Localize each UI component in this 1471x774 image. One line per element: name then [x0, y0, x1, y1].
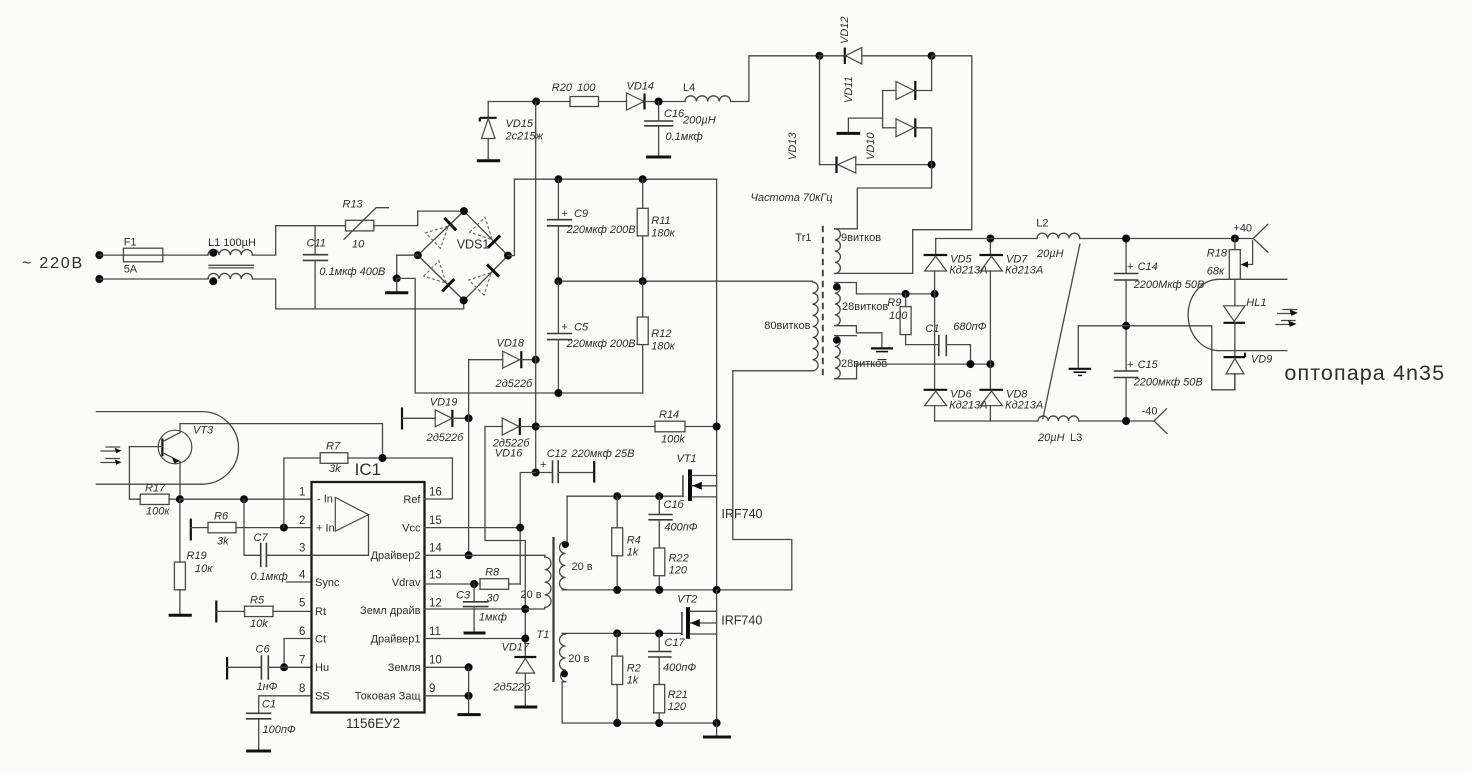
- op-amp U1 IC1 box: [312, 460, 425, 731]
- wire L1 upper out jog up: [252, 226, 345, 255]
- svg-text:C1: C1: [262, 699, 276, 711]
- transistor VT3: [129, 425, 214, 464]
- node R11 R12 junction: [639, 277, 647, 285]
- svg-text:1156ЕУ2: 1156ЕУ2: [346, 716, 400, 731]
- resistor R17: [140, 483, 180, 518]
- capacitor C17 gate VT2: [649, 633, 697, 684]
- node upper winding VD5 junction: [931, 290, 939, 298]
- svg-text:0.1мкф: 0.1мкф: [666, 131, 703, 143]
- transformer Tr1 lower secondary 28 turns: [833, 336, 887, 379]
- node minus 40V terminal: [1142, 406, 1167, 434]
- svg-text:VT2: VT2: [677, 594, 697, 606]
- svg-text:R6: R6: [214, 511, 229, 523]
- svg-text:L2: L2: [1036, 218, 1048, 230]
- svg-text:4: 4: [299, 570, 306, 582]
- node bridge left vertex: [414, 251, 422, 259]
- wire half-bridge midpoint rail: [562, 589, 792, 591]
- ground center tap: [871, 333, 893, 352]
- wire clamp left rail: [819, 56, 821, 165]
- svg-text:VT1: VT1: [677, 453, 697, 465]
- svg-text:2с215ж: 2с215ж: [505, 131, 544, 143]
- svg-text:VD13: VD13: [787, 132, 799, 160]
- transformer T1 lower gate winding: [560, 633, 590, 723]
- node VD19 junction: [465, 414, 473, 422]
- wire VD14 to L4: [645, 101, 686, 103]
- node clamp right top: [928, 52, 936, 60]
- zener VD9: [1224, 353, 1273, 390]
- svg-text:R18: R18: [1207, 248, 1228, 260]
- svg-text:20µН: 20µН: [1037, 432, 1065, 444]
- svg-text:VD17: VD17: [502, 642, 530, 654]
- wire pin4 Sync stub: [287, 581, 312, 583]
- transistor VT2: [677, 594, 762, 639]
- node C9 C5 junction: [554, 277, 562, 285]
- node pin6 pin7 junction: [280, 663, 288, 671]
- wire L3 to minus output: [1079, 420, 1154, 422]
- svg-text:-40: -40: [1142, 406, 1158, 418]
- svg-text:68к: 68к: [1207, 266, 1225, 278]
- resistor R4: [612, 496, 641, 590]
- diode VD7: [979, 239, 1043, 365]
- diode VD13: [787, 132, 932, 173]
- node VD7 top rail junction: [986, 235, 994, 243]
- svg-text:10: 10: [429, 655, 442, 667]
- wire lower input to L1: [99, 278, 208, 280]
- fuse F1: [123, 237, 162, 276]
- diode VD18: [469, 338, 536, 391]
- svg-text:100: 100: [577, 82, 596, 94]
- diode VD6: [924, 294, 988, 421]
- svg-text:Vcc: Vcc: [402, 523, 421, 535]
- node VD7 VD8 rail junction: [986, 360, 994, 368]
- node C16 top: [655, 98, 663, 106]
- resistor R9: [887, 294, 938, 345]
- svg-text:0.1мкф 400В: 0.1мкф 400В: [319, 266, 385, 278]
- svg-text:R5: R5: [250, 595, 265, 607]
- svg-text:100k: 100k: [661, 434, 685, 446]
- node R20 left junction: [532, 98, 540, 106]
- svg-text:VD19: VD19: [430, 397, 458, 409]
- svg-text:оптопара 4n35: оптопара 4n35: [1284, 361, 1445, 385]
- svg-text:30: 30: [487, 593, 500, 605]
- node C14 C15 junction: [1122, 322, 1130, 330]
- node pin12 T1 winding junction: [521, 605, 529, 613]
- transformer Tr1 winding 9 turns: [835, 229, 881, 274]
- bridge rectifier VDS1: [418, 211, 508, 300]
- wire L1 lower out jog down: [252, 279, 275, 309]
- svg-text:1k: 1k: [627, 547, 639, 559]
- node bridge top vertex: [460, 207, 468, 215]
- svg-text:R4: R4: [627, 535, 641, 547]
- diode VD14: [627, 81, 655, 111]
- node VD18 cathode junction: [532, 356, 540, 364]
- ground VD15: [477, 159, 500, 162]
- wire HV plus rail: [514, 178, 716, 180]
- svg-text:9: 9: [429, 683, 435, 695]
- op-amp error amplifier triangle: [335, 498, 368, 532]
- svg-text:100: 100: [889, 310, 908, 322]
- svg-text:1k: 1k: [627, 675, 639, 687]
- capacitor C16: [645, 102, 703, 157]
- svg-text:12: 12: [429, 598, 442, 610]
- wire pin15 Vcc line: [425, 527, 521, 529]
- diode VD19: [402, 397, 469, 445]
- svg-text:2д522б: 2д522б: [493, 682, 532, 694]
- node pin13 R8 C3 junction: [470, 580, 478, 588]
- led HL1: [1224, 279, 1267, 357]
- inductor L1 common-mode choke: [208, 237, 256, 285]
- capacitor C12: [536, 448, 635, 483]
- svg-text:C11: C11: [307, 238, 326, 250]
- svg-text:220мкф 200В: 220мкф 200В: [566, 338, 636, 350]
- node R6 pin2 R7 junction: [280, 524, 288, 532]
- svg-text:1мкф: 1мкф: [479, 612, 507, 624]
- node pin11 VD17 junction: [521, 635, 529, 643]
- capacitor C3: [456, 584, 507, 633]
- svg-text:400пФ: 400пФ: [663, 662, 696, 674]
- ground bridge minus: [385, 278, 408, 292]
- svg-text:Rt: Rt: [315, 606, 326, 618]
- wire VT1 source to midpoint: [716, 476, 718, 590]
- resistor R22: [654, 548, 689, 590]
- svg-text:SS: SS: [315, 691, 330, 703]
- node pin10 junction: [465, 663, 473, 671]
- svg-text:R22: R22: [669, 553, 689, 565]
- svg-text:0.1мкф: 0.1мкф: [251, 571, 288, 583]
- wire L4 to clamp top rail: [731, 56, 820, 102]
- svg-text:Драйвер1: Драйвер1: [371, 634, 421, 646]
- node Vcc junction: [516, 524, 524, 532]
- wire pin9 line: [425, 695, 469, 697]
- svg-text:28витков: 28витков: [842, 301, 888, 313]
- svg-text:IC1: IC1: [355, 460, 381, 479]
- svg-text:11: 11: [429, 626, 441, 638]
- node input terminal upper: [95, 251, 103, 259]
- inductor L2: [1036, 218, 1080, 261]
- svg-text:3: 3: [299, 543, 305, 555]
- wire bridge right vertex up to HV plus rail: [508, 179, 514, 255]
- resistor R21: [654, 685, 688, 724]
- capacitor C7: [244, 499, 312, 583]
- svg-text:C14: C14: [1138, 261, 1158, 273]
- resistor R11: [637, 179, 675, 281]
- node C9 top: [554, 175, 562, 183]
- svg-text:Кд213А: Кд213А: [1005, 265, 1043, 277]
- svg-text:16: 16: [429, 487, 442, 499]
- diode VD12: [820, 16, 932, 64]
- svg-text:80витков: 80витков: [764, 320, 810, 332]
- resistor R6: [191, 511, 312, 548]
- svg-text:L1 100µH: L1 100µH: [208, 237, 256, 249]
- diode VD11: [843, 56, 932, 128]
- svg-text:F1: F1: [124, 237, 137, 249]
- wire HL1 VD9 junction stub: [1218, 350, 1287, 352]
- svg-text:2200Мкф 50В: 2200Мкф 50В: [1133, 279, 1205, 291]
- svg-text:Tr1: Tr1: [795, 232, 811, 244]
- wire L2 to plus output: [1080, 238, 1254, 240]
- wire clamp top right corner down: [835, 56, 972, 274]
- svg-text:R20: R20: [552, 82, 573, 94]
- svg-text:C12: C12: [547, 448, 567, 460]
- svg-text:C1: C1: [925, 323, 939, 335]
- node IC1 left pin numbers: [299, 487, 306, 696]
- node plus 40V terminal: [1231, 223, 1268, 253]
- ground IC pins 9 10: [458, 667, 481, 714]
- diode VDS1 arm bottom-left: [424, 261, 455, 292]
- wire output plus rail: [936, 238, 1037, 240]
- diode VD5: [924, 239, 988, 294]
- node IC1 left pin names: [315, 577, 340, 703]
- wire pin14 driver2 line: [425, 554, 545, 556]
- svg-text:~ 220В: ~ 220В: [22, 255, 84, 272]
- wire L2 L3 coupling line: [1043, 244, 1080, 418]
- resistor R14: [536, 409, 717, 446]
- node C17 top: [655, 629, 663, 637]
- node R4 top: [613, 492, 621, 500]
- node C15 bottom: [1122, 417, 1130, 425]
- node VT1 source midpoint junction: [713, 586, 721, 594]
- svg-text:C16: C16: [664, 108, 685, 120]
- wire HV plus rail down to VT1 drain: [716, 179, 718, 475]
- svg-text:1нФ: 1нФ: [257, 681, 278, 693]
- svg-text:R7: R7: [326, 441, 341, 453]
- svg-text:VD10: VD10: [865, 132, 877, 160]
- svg-text:L3: L3: [1070, 432, 1082, 444]
- svg-text:20µН: 20µН: [1036, 248, 1064, 260]
- svg-text:100к: 100к: [146, 506, 170, 518]
- svg-text:Ref: Ref: [403, 494, 421, 506]
- svg-text:Кд213А: Кд213А: [1005, 400, 1043, 412]
- svg-text:VD9: VD9: [1251, 354, 1272, 366]
- zener VD15: [480, 102, 544, 161]
- node VD13 VD10 junction: [928, 161, 936, 169]
- resistor R5: [216, 595, 311, 631]
- svg-text:14: 14: [429, 543, 442, 555]
- node IC1 right pin numbers: [429, 487, 442, 696]
- svg-text:120: 120: [668, 701, 687, 713]
- svg-text:R9: R9: [887, 297, 901, 309]
- wire pin6 Ct loop: [284, 639, 311, 668]
- wire upper input to fuse: [99, 254, 123, 256]
- svg-text:C9: C9: [574, 208, 588, 220]
- resistor R20: [552, 82, 599, 107]
- node bridge bottom vertex: [460, 296, 468, 304]
- node upper winding R9 junction: [902, 290, 910, 298]
- svg-text:+: +: [562, 322, 568, 334]
- ground output 0V: [1069, 326, 1092, 376]
- svg-text:2д522б: 2д522б: [495, 378, 534, 390]
- wire VT3 base to R17 left: [129, 447, 140, 500]
- svg-text:8: 8: [299, 683, 305, 695]
- wire VD13 junction to 9 turns winding: [835, 165, 932, 229]
- svg-text:VD12: VD12: [839, 16, 851, 44]
- svg-text:R19: R19: [187, 550, 207, 562]
- wire pin1 rail: [180, 498, 312, 500]
- svg-text:20 в: 20 в: [568, 653, 589, 665]
- svg-text:3k: 3k: [217, 536, 229, 548]
- node VD11 VD10 plate electrode: [837, 118, 883, 133]
- svg-text:C5: C5: [574, 322, 589, 334]
- wire output minus rail: [935, 420, 1038, 422]
- diode VD10: [865, 118, 932, 164]
- node C13 top: [655, 492, 663, 500]
- svg-text:IRF740: IRF740: [722, 507, 763, 521]
- wire fuse to L1: [163, 254, 208, 256]
- wire VT2 bottom rail: [562, 722, 717, 724]
- wire startup vertical from R20 node: [535, 102, 537, 473]
- resistor R7: [284, 441, 453, 528]
- wire R13 to bridge top: [374, 211, 464, 226]
- svg-text:20 в: 20 в: [521, 589, 542, 601]
- wire lower secondary rail: [857, 363, 991, 365]
- wire VT3 emitter down: [179, 462, 181, 500]
- node R2 bottom: [613, 719, 621, 727]
- transformer Tr1 core: [795, 226, 822, 378]
- wire bridge left to ground: [397, 255, 418, 278]
- svg-text:Частота 70кГц: Частота 70кГц: [751, 192, 833, 204]
- wire lower rail to bridge bottom: [276, 300, 464, 309]
- transformer Tr1 primary 80 turns: [733, 281, 818, 371]
- svg-text:Драйвер2: Драйвер2: [371, 550, 421, 562]
- node C12 junction: [532, 469, 540, 477]
- capacitor C1s snubber: [925, 321, 986, 364]
- varistor R13: [343, 199, 389, 251]
- wire VT2 gate rail: [562, 632, 682, 634]
- resistor R2: [612, 633, 641, 723]
- ground C16: [646, 156, 671, 159]
- capacitor C13 gate VT1: [649, 496, 698, 548]
- svg-text:C15: C15: [1138, 359, 1159, 371]
- resistor R12: [637, 281, 675, 393]
- svg-text:VD11: VD11: [843, 76, 855, 103]
- node R14 drain rail junction: [713, 423, 721, 431]
- svg-text:C6: C6: [256, 644, 271, 656]
- transformer Tr1 upper secondary 28 turns: [833, 283, 935, 333]
- svg-text:+: +: [1127, 359, 1133, 371]
- svg-text:220мкф 25В: 220мкф 25В: [571, 448, 635, 460]
- resistor R19: [174, 499, 213, 614]
- svg-text:Токовая Защ: Токовая Защ: [355, 691, 421, 703]
- svg-text:R17: R17: [145, 483, 166, 495]
- inductor L4: [682, 82, 731, 127]
- transformer T1 primary winding: [521, 555, 552, 609]
- svg-text:HL1: HL1: [1246, 297, 1266, 309]
- svg-text:120: 120: [669, 565, 688, 577]
- svg-text:10: 10: [352, 239, 365, 251]
- inductor L3: [1037, 416, 1082, 444]
- node C5 bottom: [554, 389, 562, 397]
- wire 0V rail: [1078, 326, 1235, 390]
- svg-text:5: 5: [299, 598, 305, 610]
- svg-text:220мкф 200В: 220мкф 200В: [566, 224, 636, 236]
- svg-text:2200мкф 50В: 2200мкф 50В: [1133, 377, 1203, 389]
- capacitor C6: [227, 644, 311, 694]
- wire pin10 line: [425, 666, 469, 668]
- wire HV minus rail: [415, 392, 643, 394]
- svg-text:+40: +40: [1233, 223, 1252, 235]
- svg-text:L4: L4: [683, 82, 695, 94]
- svg-text:R13: R13: [343, 199, 364, 211]
- node R22 bottom: [655, 586, 663, 594]
- svg-text:7: 7: [299, 655, 305, 667]
- wire pin12 line: [425, 608, 526, 610]
- diode VDS1 arm top-right: [470, 217, 501, 248]
- capacitor C11: [304, 226, 386, 309]
- svg-text:6: 6: [299, 626, 305, 638]
- svg-text:180к: 180к: [651, 228, 675, 240]
- node C1s bottom junction: [967, 360, 975, 368]
- svg-text:3k: 3k: [329, 463, 341, 475]
- svg-text:9витков: 9витков: [841, 232, 881, 244]
- node R2 top: [613, 629, 621, 637]
- diode VD17: [493, 642, 538, 708]
- node pin14 vertical junction: [465, 551, 473, 559]
- capacitor C1: [246, 696, 311, 751]
- svg-text:5A: 5A: [124, 264, 138, 276]
- svg-text:+: +: [1127, 261, 1133, 273]
- node R21 bottom: [655, 719, 663, 727]
- wire pin16 Ref loop: [425, 458, 453, 499]
- wire VT1 gate rail: [567, 495, 683, 497]
- node input terminal lower: [95, 275, 103, 283]
- svg-text:200µН: 200µН: [682, 115, 716, 127]
- node bridge ground junction: [393, 274, 401, 282]
- diode VD16: [485, 418, 536, 657]
- svg-text:VD18: VD18: [497, 338, 525, 350]
- node R7 collector junction: [379, 454, 387, 462]
- svg-text:C3: C3: [456, 590, 471, 602]
- resistor R8: [480, 567, 520, 605]
- svg-text:- In: - In: [317, 494, 333, 506]
- node R4 bottom: [613, 586, 621, 594]
- trimmer R18: [1207, 239, 1253, 280]
- diode VD8: [979, 364, 1043, 421]
- node VT3 emitter R17 R19 junction: [176, 495, 184, 503]
- wire R18 HL1 junction stub: [1218, 278, 1287, 280]
- wire primary bottom to half-bridge midpoint: [733, 371, 792, 590]
- svg-text:C1б: C1б: [664, 499, 685, 511]
- ground R19: [169, 614, 192, 617]
- wire R20 to VD14: [599, 101, 627, 103]
- svg-text:Ct: Ct: [315, 634, 326, 646]
- svg-text:100пФ: 100пФ: [263, 724, 296, 736]
- svg-text:1: 1: [299, 487, 305, 499]
- svg-text:R21: R21: [668, 689, 688, 701]
- diode VDS1 arm top-left: [426, 218, 457, 249]
- svg-text:Vdrav: Vdrav: [392, 577, 421, 589]
- svg-text:Hu: Hu: [315, 662, 329, 674]
- ground VT2 source: [703, 723, 731, 737]
- capacitor C5: [548, 281, 636, 393]
- wire HV mid rail to transformer primary: [558, 280, 812, 282]
- svg-text:10к: 10к: [195, 563, 213, 575]
- capacitor C15: [1115, 326, 1203, 421]
- wire VT3 collector to R7 node: [180, 424, 383, 458]
- wire C12 node to Vcc: [520, 473, 536, 585]
- svg-text:R11: R11: [651, 215, 670, 227]
- node C14 top: [1122, 235, 1130, 243]
- node R11 top: [639, 175, 647, 183]
- svg-text:20 в: 20 в: [572, 561, 593, 573]
- svg-text:15: 15: [429, 515, 442, 527]
- svg-text:T1: T1: [537, 629, 550, 641]
- svg-text:2д522б: 2д522б: [426, 432, 465, 444]
- svg-text:IRF740: IRF740: [721, 614, 762, 628]
- wire VD18 left vertical to pin14: [468, 360, 470, 556]
- svg-text:VD14: VD14: [627, 81, 655, 93]
- opto phototransistor outline: [96, 412, 238, 485]
- svg-text:+: +: [540, 459, 546, 471]
